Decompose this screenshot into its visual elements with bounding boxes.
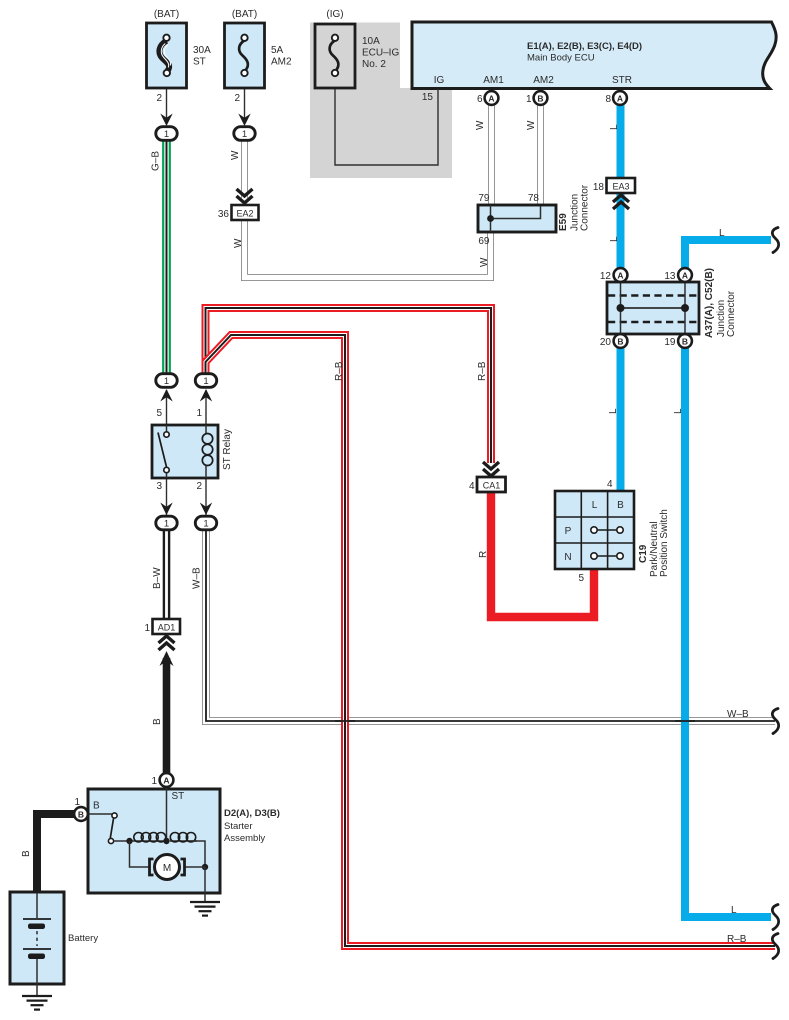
svg-text:L: L: [731, 905, 737, 916]
ground at starter: [190, 902, 220, 916]
C19 N-row contact: [594, 555, 620, 557]
svg-text:N: N: [564, 552, 571, 563]
wire: W from EA2 down, right, up to E59 pin 69: [245, 220, 491, 278]
relay coil: [202, 434, 212, 444]
svg-text:12: 12: [600, 271, 612, 282]
svg-text:Connector: Connector: [580, 184, 591, 231]
svg-text:EA3: EA3: [612, 182, 629, 192]
svg-text:5: 5: [156, 408, 162, 419]
gray engine-room block behind IG fuse: [310, 23, 452, 179]
wire: B thick black from AD1 to starter pin A: [163, 658, 171, 774]
svg-text:79: 79: [478, 193, 490, 204]
park/neutral position switch C19: [555, 479, 670, 584]
svg-text:Assembly: Assembly: [224, 833, 265, 844]
svg-text:1: 1: [74, 797, 80, 808]
svg-text:Starter: Starter: [224, 821, 253, 832]
arrowhead up on B wire below AD1 chevron: [160, 651, 174, 666]
svg-text:ECU–IG: ECU–IG: [362, 48, 399, 59]
thin wire: relay pin 1: [205, 390, 207, 426]
C19 P-row contact: [594, 529, 620, 531]
wire: W-B from relay pin2 oval down and right to edge: [206, 530, 775, 721]
ECU pin 1(B): [526, 91, 547, 105]
arrowhead down into oval: [200, 503, 212, 516]
svg-text:W: W: [230, 150, 241, 160]
svg-text:B: B: [682, 337, 688, 347]
A37 pin 12(A): [600, 268, 628, 282]
svg-text:A: A: [617, 94, 623, 104]
thin wire: 30A fuse to oval: [166, 77, 168, 124]
svg-text:2: 2: [234, 93, 240, 104]
svg-text:B–W: B–W: [152, 567, 163, 589]
relay internal pin stubs: [167, 425, 207, 478]
squiggle: L bottom right: [772, 905, 778, 930]
fuse 30A ST box: [147, 9, 212, 104]
starter magnetic switch: [88, 813, 114, 815]
svg-text:AD1: AD1: [158, 623, 176, 633]
svg-text:W: W: [526, 120, 537, 130]
svg-text:R–B: R–B: [334, 361, 345, 381]
junction dot: [126, 838, 132, 844]
svg-text:M: M: [163, 863, 171, 874]
starter internal wire from pin A: [166, 787, 168, 841]
oval terminal below 30A fuse: [156, 127, 177, 141]
A37 pin 20(B): [600, 334, 628, 348]
arrowhead into oval: [238, 114, 250, 127]
wire: L blue from A37 20(B) down to C19 pin 4: [617, 347, 625, 491]
svg-text:1: 1: [151, 776, 157, 787]
svg-text:B: B: [537, 94, 543, 104]
svg-text:EA2: EA2: [236, 209, 253, 219]
connector CA1: [469, 462, 506, 492]
C19 grid lines: [580, 492, 582, 568]
fuse 10A ECU-IG box: [315, 9, 399, 88]
svg-text:W: W: [479, 257, 490, 267]
svg-text:W–B: W–B: [192, 567, 203, 589]
wire: W from ECU AM1 6(A) to E59 pin 79: [488, 105, 495, 205]
wire: R-B from relay oval up right down to CA1: [206, 308, 492, 463]
svg-text:No. 2: No. 2: [362, 59, 386, 70]
relay switch contacts and blade: [164, 432, 169, 437]
svg-text:6: 6: [477, 94, 483, 105]
svg-text:R–B: R–B: [727, 934, 747, 945]
wire: L blue from A37 19(B) down and right to edge: [685, 347, 771, 917]
svg-text:3: 3: [156, 481, 162, 492]
wire: W from ECU AM2 1(B) to E59 pin 78: [537, 105, 544, 205]
ECU pin 8(A): [605, 91, 626, 105]
svg-text:13: 13: [664, 271, 676, 282]
svg-text:L: L: [673, 408, 684, 414]
svg-text:AM2: AM2: [271, 57, 292, 68]
oval terminal below relay pin 2: [195, 516, 216, 530]
wire: B-W from relay pin3 oval to AD1: [163, 530, 171, 619]
svg-text:L: L: [592, 500, 598, 511]
ground at battery: [22, 996, 52, 1010]
svg-text:B: B: [93, 801, 100, 812]
arrowhead up toward oval: [160, 389, 172, 402]
svg-text:(BAT): (BAT): [154, 9, 179, 20]
svg-text:4: 4: [607, 479, 613, 490]
squiggle: W-B right: [772, 709, 778, 734]
svg-text:10A: 10A: [362, 36, 380, 47]
svg-text:18: 18: [593, 182, 605, 193]
E59 internal through-wire and branch with junction dot: [490, 205, 492, 232]
wire: IG fuse to ECU pin 15 (thin black): [335, 75, 438, 165]
svg-text:W–B: W–B: [727, 709, 749, 720]
svg-text:L: L: [609, 236, 620, 242]
svg-text:1: 1: [196, 408, 202, 419]
A37 pin 19(B): [664, 334, 692, 348]
svg-text:L: L: [608, 408, 619, 414]
A37 pin 13(A): [664, 268, 692, 282]
svg-text:L: L: [719, 228, 725, 239]
svg-text:30A: 30A: [193, 45, 211, 56]
starter pin 1(A): [151, 773, 173, 787]
svg-text:19: 19: [664, 337, 676, 348]
oval terminal below AM2 fuse: [234, 127, 255, 141]
junction dot right: [202, 864, 208, 870]
svg-text:ST: ST: [172, 791, 185, 802]
svg-text:STR: STR: [612, 75, 632, 86]
wire: L blue STR from ECU 8(A) to A37 pin 12(A): [617, 104, 625, 269]
thin wire: relay pin 5: [166, 390, 168, 426]
wire: L blue top right from A37 13(A) up and right to edge: [685, 240, 771, 269]
thin wire: relay pin 2: [205, 477, 207, 515]
svg-text:5: 5: [578, 573, 584, 584]
svg-text:Battery: Battery: [68, 933, 98, 944]
ST relay box: [152, 408, 233, 492]
starter assembly box: [88, 787, 280, 901]
arrowhead into oval: [160, 114, 172, 127]
svg-text:5A: 5A: [271, 45, 284, 56]
junction connector A37(A), C52(B): [607, 268, 737, 338]
svg-text:(BAT): (BAT): [232, 9, 257, 20]
svg-text:IG: IG: [434, 75, 445, 86]
svg-text:A: A: [682, 271, 688, 281]
svg-text:AM1: AM1: [483, 75, 504, 86]
svg-text:E1(A), E2(B), E3(C), E4(D): E1(A), E2(B), E3(C), E4(D): [527, 41, 642, 52]
svg-text:A: A: [163, 776, 169, 786]
svg-text:B: B: [21, 850, 32, 857]
svg-text:2: 2: [156, 93, 162, 104]
svg-text:36: 36: [218, 209, 230, 220]
junction connector E59: [478, 184, 591, 247]
junction dot center: [163, 838, 169, 844]
svg-text:P: P: [565, 526, 572, 537]
wire crossing: R-B vertical over W-B: [335, 710, 355, 733]
svg-text:D2(A), D3(B): D2(A), D3(B): [224, 808, 280, 819]
svg-text:ST Relay: ST Relay: [222, 429, 233, 470]
connector EA2: [218, 189, 259, 220]
connector EA3: [593, 178, 635, 209]
arrowhead down into oval: [160, 503, 172, 516]
svg-text:78: 78: [528, 193, 540, 204]
svg-text:R: R: [478, 551, 489, 558]
svg-text:A: A: [488, 94, 494, 104]
svg-text:20: 20: [600, 337, 612, 348]
svg-text:A37(A), C52(B): A37(A), C52(B): [704, 268, 715, 338]
arrowhead up toward oval: [200, 389, 212, 402]
svg-text:15: 15: [422, 92, 434, 103]
squiggle: L top right: [772, 228, 778, 253]
A37 dashed separators: [608, 294, 698, 297]
svg-text:4: 4: [469, 481, 475, 492]
starter field coil 2: [170, 840, 197, 842]
svg-text:B: B: [617, 337, 623, 347]
svg-text:1: 1: [144, 623, 150, 634]
fuse 5A AM2 box: [225, 9, 293, 104]
battery cell plates: [23, 918, 51, 920]
wire: G-B from fuse oval to relay oval: [162, 140, 171, 374]
svg-text:B: B: [617, 500, 624, 511]
thin wire: relay pin 3: [166, 477, 168, 515]
wire: R solid red from CA1 down right up to C19 pin 5: [491, 491, 594, 617]
svg-text:69: 69: [478, 236, 490, 247]
svg-text:AM2: AM2: [533, 75, 554, 86]
oval terminal below relay pin 3: [156, 516, 177, 530]
svg-text:2: 2: [196, 481, 202, 492]
svg-text:1: 1: [526, 94, 532, 105]
ECU pin 6(A): [477, 91, 498, 105]
starter field coil 1: [133, 840, 164, 842]
A37 internal through-wires and link with junction dots: [620, 283, 622, 333]
wire: W from AM2 fuse down to EA2: [241, 140, 248, 198]
connector AD1: [144, 619, 180, 650]
op ECU box: Main Body ECU: [412, 22, 776, 89]
svg-text:W: W: [233, 238, 244, 248]
svg-text:W: W: [475, 120, 486, 130]
wire: R-B branch from relay oval diagonally right down to bottom edge: [206, 335, 776, 946]
wire: B thick black from starter pin B to battery: [37, 814, 75, 893]
svg-text:Connector: Connector: [726, 290, 737, 337]
svg-text:R–B: R–B: [477, 361, 488, 381]
svg-text:B: B: [152, 718, 163, 725]
svg-text:Main Body ECU: Main Body ECU: [527, 53, 595, 64]
oval terminal above relay pin 5: [156, 374, 177, 388]
motor brush brackets: [150, 859, 154, 875]
starter pin 1(B): [74, 797, 100, 821]
svg-text:ST: ST: [193, 57, 206, 68]
svg-text:B: B: [78, 810, 84, 820]
svg-text:8: 8: [605, 94, 611, 105]
battery box: [10, 892, 98, 996]
svg-text:G–B: G–B: [151, 151, 162, 171]
wire crossing: L blue vertical over W-B: [675, 710, 695, 733]
svg-text:(IG): (IG): [326, 9, 343, 20]
thin wire: AM2 fuse to oval: [244, 77, 246, 124]
svg-text:A: A: [617, 271, 623, 281]
squiggle: R-B bottom right: [772, 934, 778, 959]
svg-text:E59: E59: [558, 213, 569, 231]
oval terminal above relay pin 1: [195, 374, 216, 388]
starter motor M: [155, 855, 180, 880]
svg-text:CA1: CA1: [483, 481, 501, 491]
svg-text:Position Switch: Position Switch: [659, 509, 670, 577]
svg-text:L: L: [609, 124, 620, 130]
svg-text:C19: C19: [638, 544, 649, 563]
